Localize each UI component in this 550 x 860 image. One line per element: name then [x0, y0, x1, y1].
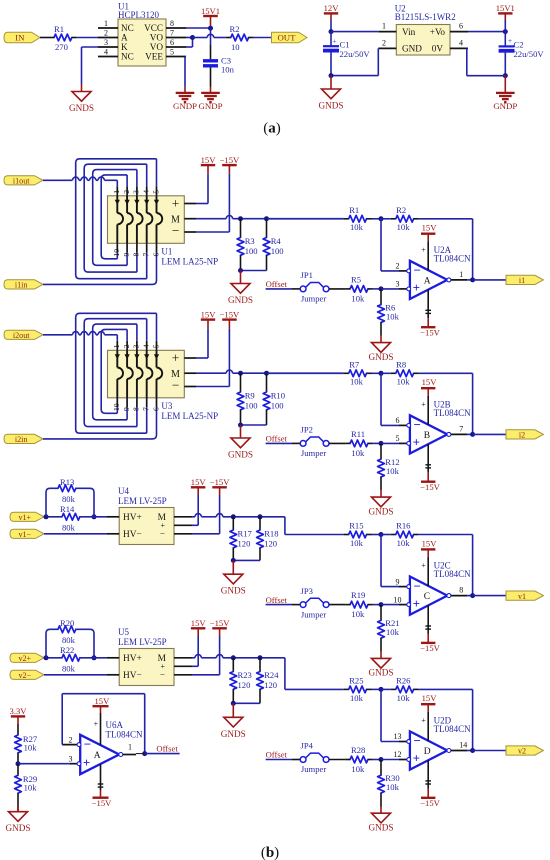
svg-text:+: + — [83, 755, 90, 770]
svg-text:v1: v1 — [518, 592, 526, 601]
svg-text:R24: R24 — [264, 670, 279, 680]
svg-text:v1+: v1+ — [18, 513, 31, 522]
svg-text:4: 4 — [142, 190, 151, 194]
svg-text:TL084CN: TL084CN — [434, 408, 471, 418]
svg-text:HCPL3120: HCPL3120 — [118, 10, 160, 20]
svg-text:−15V: −15V — [220, 155, 240, 165]
svg-text:R16: R16 — [396, 521, 411, 531]
svg-text:10k: 10k — [386, 782, 400, 792]
svg-text:15V: 15V — [422, 377, 438, 387]
svg-text:−: − — [172, 223, 180, 238]
svg-text:GNDS: GNDS — [368, 668, 393, 678]
svg-text:10k: 10k — [397, 693, 411, 703]
svg-text:3: 3 — [396, 280, 400, 289]
svg-text:−15V: −15V — [92, 798, 112, 808]
svg-text:Jumper: Jumper — [301, 609, 326, 619]
svg-text:R9: R9 — [245, 391, 255, 401]
svg-text:TL084CN: TL084CN — [434, 569, 471, 579]
svg-text:3: 3 — [104, 38, 108, 47]
svg-text:+: + — [421, 400, 426, 409]
svg-text:+: + — [421, 245, 426, 254]
svg-text:NC: NC — [121, 52, 134, 62]
svg-text:+: + — [413, 280, 420, 295]
svg-text:VO: VO — [150, 33, 164, 43]
svg-text:GNDS: GNDS — [69, 103, 94, 113]
svg-text:15V: 15V — [201, 309, 217, 319]
svg-text:4: 4 — [104, 48, 108, 57]
svg-text:22u/50V: 22u/50V — [340, 49, 371, 59]
svg-text:13: 13 — [394, 732, 402, 741]
svg-text:3: 3 — [69, 755, 73, 764]
svg-text:9: 9 — [122, 407, 131, 411]
svg-text:15V: 15V — [191, 477, 207, 487]
svg-text:NC: NC — [121, 23, 134, 33]
svg-text:R17: R17 — [238, 529, 253, 539]
svg-text:+: + — [508, 36, 512, 45]
svg-text:LEM LA25-NP: LEM LA25-NP — [161, 256, 218, 266]
svg-text:8: 8 — [132, 253, 141, 257]
svg-text:U5: U5 — [118, 627, 129, 637]
svg-text:R5: R5 — [351, 274, 361, 284]
svg-text:10k: 10k — [350, 222, 364, 232]
svg-text:i1: i1 — [519, 276, 525, 285]
svg-text:JP1: JP1 — [301, 270, 313, 280]
svg-text:R15: R15 — [349, 521, 363, 531]
svg-text:GNDS: GNDS — [5, 823, 30, 833]
svg-text:+: + — [413, 751, 420, 766]
svg-text:80k: 80k — [62, 494, 76, 504]
svg-text:K: K — [121, 42, 128, 52]
svg-text:1: 1 — [104, 19, 108, 28]
svg-text:80k: 80k — [62, 663, 76, 673]
svg-text:−: − — [413, 578, 420, 593]
svg-text:R3: R3 — [245, 236, 255, 246]
svg-text:10k: 10k — [350, 377, 364, 387]
svg-text:6: 6 — [396, 416, 400, 425]
svg-text:R19: R19 — [351, 590, 365, 600]
svg-text:15V1: 15V1 — [201, 6, 220, 16]
svg-text:2: 2 — [396, 262, 400, 271]
svg-text:100: 100 — [245, 401, 258, 411]
svg-text:10k: 10k — [351, 448, 365, 458]
svg-text:TL084CN: TL084CN — [434, 253, 471, 263]
svg-text:7: 7 — [170, 29, 174, 38]
svg-text:10k: 10k — [350, 538, 364, 548]
svg-text:3.3V: 3.3V — [10, 706, 28, 716]
svg-text:TL084CN: TL084CN — [434, 724, 471, 734]
svg-text:R1: R1 — [54, 24, 64, 34]
svg-text:+: + — [421, 716, 426, 725]
svg-text:0V: 0V — [432, 44, 444, 54]
svg-text:JP2: JP2 — [301, 425, 313, 435]
svg-text:8: 8 — [132, 407, 141, 411]
svg-text:10n: 10n — [221, 65, 235, 75]
svg-text:+Vo: +Vo — [430, 27, 446, 37]
svg-text:15V: 15V — [422, 693, 438, 703]
svg-text:−15V: −15V — [420, 798, 440, 808]
svg-text:−: − — [160, 528, 165, 538]
svg-text:10k: 10k — [351, 764, 365, 774]
svg-text:C1: C1 — [340, 40, 350, 50]
svg-text:U3: U3 — [161, 401, 172, 411]
svg-text:VCC: VCC — [144, 23, 163, 33]
svg-text:10: 10 — [112, 403, 121, 411]
svg-text:R22: R22 — [60, 645, 74, 655]
svg-text:+: + — [413, 596, 420, 611]
svg-text:−: − — [413, 733, 420, 748]
svg-text:15V: 15V — [201, 155, 217, 165]
svg-text:i1in: i1in — [15, 281, 28, 290]
svg-text:5: 5 — [396, 434, 400, 443]
svg-text:R7: R7 — [349, 359, 360, 369]
svg-text:−15V: −15V — [420, 643, 440, 653]
svg-text:U6A: U6A — [106, 720, 124, 730]
svg-text:10k: 10k — [24, 783, 38, 793]
svg-text:14: 14 — [459, 740, 467, 749]
svg-text:C: C — [424, 592, 430, 602]
svg-text:A: A — [121, 33, 128, 43]
svg-text:15V: 15V — [191, 618, 207, 628]
svg-text:1: 1 — [128, 743, 132, 752]
svg-text:JP4: JP4 — [301, 741, 314, 751]
svg-text:i2out: i2out — [13, 331, 30, 340]
svg-text:7: 7 — [142, 253, 151, 257]
svg-text:R25: R25 — [349, 676, 363, 686]
svg-text:v2−: v2− — [18, 671, 31, 680]
svg-text:7: 7 — [459, 424, 463, 433]
svg-text:10k: 10k — [386, 311, 400, 321]
svg-text:10k: 10k — [386, 466, 400, 476]
svg-text:−15V: −15V — [220, 309, 240, 319]
svg-text:LEM LV-25P: LEM LV-25P — [118, 637, 167, 647]
svg-text:5: 5 — [170, 48, 174, 57]
svg-text:−: − — [160, 669, 165, 679]
svg-text:1: 1 — [112, 344, 121, 348]
svg-text:3: 3 — [132, 344, 141, 348]
svg-text:R11: R11 — [351, 429, 365, 439]
svg-text:R1: R1 — [349, 205, 359, 215]
svg-text:4: 4 — [142, 344, 151, 348]
svg-text:6: 6 — [459, 22, 463, 31]
svg-text:VO: VO — [150, 42, 164, 52]
svg-text:R18: R18 — [264, 529, 278, 539]
svg-text:1: 1 — [112, 190, 121, 194]
svg-text:R23: R23 — [238, 670, 252, 680]
svg-text:GNDS: GNDS — [368, 823, 393, 833]
svg-text:10k: 10k — [397, 222, 411, 232]
svg-text:−: − — [413, 263, 420, 278]
svg-text:U4: U4 — [118, 486, 129, 496]
svg-text:A: A — [424, 276, 431, 286]
svg-text:100: 100 — [271, 401, 284, 411]
svg-text:22u/50V: 22u/50V — [514, 49, 545, 59]
svg-text:10k: 10k — [397, 538, 411, 548]
svg-text:10: 10 — [394, 595, 402, 604]
svg-text:6: 6 — [151, 407, 160, 411]
svg-text:Jumper: Jumper — [301, 764, 326, 774]
svg-text:6: 6 — [151, 253, 160, 257]
svg-text:2: 2 — [104, 29, 108, 38]
svg-text:R28: R28 — [351, 745, 365, 755]
svg-text:GNDS: GNDS — [221, 586, 246, 596]
svg-text:Jumper: Jumper — [301, 448, 326, 458]
svg-text:R14: R14 — [60, 504, 75, 514]
svg-text:(a): (a) — [263, 121, 281, 137]
svg-text:R2: R2 — [396, 205, 406, 215]
svg-text:15V1: 15V1 — [496, 3, 515, 13]
svg-text:+: + — [332, 36, 336, 45]
svg-text:R2: R2 — [230, 24, 240, 34]
svg-text:U1: U1 — [161, 246, 172, 256]
svg-text:D: D — [424, 747, 431, 757]
svg-text:HV−: HV− — [123, 530, 142, 540]
svg-text:12V: 12V — [324, 3, 340, 13]
svg-text:−: − — [172, 378, 180, 393]
svg-text:IN: IN — [15, 33, 25, 43]
svg-text:R13: R13 — [60, 477, 74, 487]
svg-text:Offset: Offset — [266, 434, 288, 444]
svg-text:i1out: i1out — [13, 176, 30, 185]
svg-text:15V: 15V — [422, 538, 438, 548]
svg-text:2: 2 — [382, 38, 386, 47]
svg-text:10k: 10k — [24, 742, 38, 752]
svg-text:−15V: −15V — [210, 477, 230, 487]
svg-text:−15V: −15V — [420, 482, 440, 492]
svg-text:12: 12 — [394, 750, 402, 759]
svg-text:VEE: VEE — [145, 52, 163, 62]
svg-text:i2: i2 — [519, 431, 525, 440]
svg-text:7: 7 — [142, 407, 151, 411]
svg-text:2: 2 — [69, 735, 73, 744]
svg-text:GNDP: GNDP — [493, 101, 517, 111]
svg-text:6: 6 — [170, 38, 174, 47]
svg-text:10k: 10k — [350, 693, 364, 703]
svg-text:2: 2 — [122, 190, 131, 194]
svg-text:1: 1 — [382, 22, 386, 31]
svg-text:100: 100 — [245, 246, 258, 256]
svg-text:B1215LS-1WR2: B1215LS-1WR2 — [395, 12, 456, 22]
svg-text:3: 3 — [132, 190, 141, 194]
svg-text:Vin: Vin — [402, 27, 416, 37]
svg-text:9: 9 — [396, 577, 400, 586]
svg-text:v2+: v2+ — [18, 654, 31, 663]
svg-text:120: 120 — [264, 680, 277, 690]
svg-text:GNDS: GNDS — [228, 450, 253, 460]
svg-text:10k: 10k — [351, 609, 365, 619]
svg-text:10: 10 — [231, 42, 240, 52]
svg-text:Offset: Offset — [266, 279, 288, 289]
svg-text:R4: R4 — [271, 236, 282, 246]
svg-text:270: 270 — [55, 42, 68, 52]
svg-text:1: 1 — [459, 270, 463, 279]
svg-text:120: 120 — [264, 539, 277, 549]
svg-text:GND: GND — [402, 44, 422, 54]
svg-text:10k: 10k — [351, 294, 365, 304]
svg-text:(b): (b) — [261, 845, 279, 860]
svg-text:R10: R10 — [271, 391, 285, 401]
svg-text:B: B — [424, 431, 430, 441]
svg-text:9: 9 — [122, 253, 131, 257]
svg-text:−: − — [413, 417, 420, 432]
svg-text:GNDS: GNDS — [368, 506, 393, 516]
svg-text:R26: R26 — [396, 676, 411, 686]
svg-text:LEM LV-25P: LEM LV-25P — [118, 496, 167, 506]
svg-text:i2in: i2in — [15, 435, 28, 444]
svg-text:8: 8 — [170, 19, 174, 28]
svg-text:5: 5 — [151, 190, 160, 194]
svg-text:GNDS: GNDS — [228, 295, 253, 305]
svg-text:Jumper: Jumper — [301, 294, 326, 304]
svg-text:8: 8 — [459, 586, 463, 595]
svg-text:+: + — [413, 435, 420, 450]
svg-text:80k: 80k — [62, 522, 76, 532]
svg-text:GNDS: GNDS — [368, 352, 393, 362]
svg-text:R20: R20 — [60, 618, 74, 628]
svg-text:HV+: HV+ — [123, 513, 142, 523]
svg-text:10k: 10k — [386, 627, 400, 637]
svg-text:120: 120 — [238, 680, 251, 690]
svg-text:Offset: Offset — [266, 595, 288, 605]
svg-text:120: 120 — [238, 539, 251, 549]
svg-text:15V: 15V — [422, 223, 438, 233]
svg-text:LEM LA25-NP: LEM LA25-NP — [161, 411, 218, 421]
svg-text:−15V: −15V — [420, 328, 440, 338]
svg-text:A: A — [94, 751, 101, 761]
svg-text:15V: 15V — [94, 696, 110, 706]
svg-text:−15V: −15V — [210, 618, 230, 628]
svg-text:HV−: HV− — [123, 671, 142, 681]
svg-text:C2: C2 — [514, 40, 524, 50]
svg-text:80k: 80k — [62, 635, 76, 645]
svg-text:GNDP: GNDP — [173, 101, 197, 111]
svg-text:GNDP: GNDP — [199, 101, 223, 111]
svg-text:+: + — [172, 351, 180, 366]
svg-text:v2: v2 — [518, 747, 526, 756]
svg-text:+: + — [172, 196, 180, 211]
svg-text:R8: R8 — [396, 359, 406, 369]
svg-text:Offset: Offset — [156, 743, 178, 753]
svg-text:TL084CN: TL084CN — [106, 730, 143, 740]
svg-text:OUT: OUT — [277, 33, 296, 43]
svg-text:+: + — [94, 720, 99, 729]
svg-text:2: 2 — [122, 344, 131, 348]
svg-text:5: 5 — [151, 344, 160, 348]
svg-text:+: + — [421, 561, 426, 570]
svg-text:HV+: HV+ — [123, 654, 142, 664]
svg-text:Offset: Offset — [266, 750, 288, 760]
svg-text:10k: 10k — [397, 377, 411, 387]
svg-text:−: − — [84, 736, 91, 751]
svg-text:4: 4 — [459, 38, 463, 47]
svg-text:JP3: JP3 — [301, 586, 313, 596]
svg-text:10: 10 — [112, 249, 121, 257]
svg-text:100: 100 — [271, 246, 284, 256]
svg-text:GNDS: GNDS — [318, 101, 343, 111]
svg-text:v1−: v1− — [18, 530, 31, 539]
svg-text:GNDS: GNDS — [221, 729, 246, 739]
